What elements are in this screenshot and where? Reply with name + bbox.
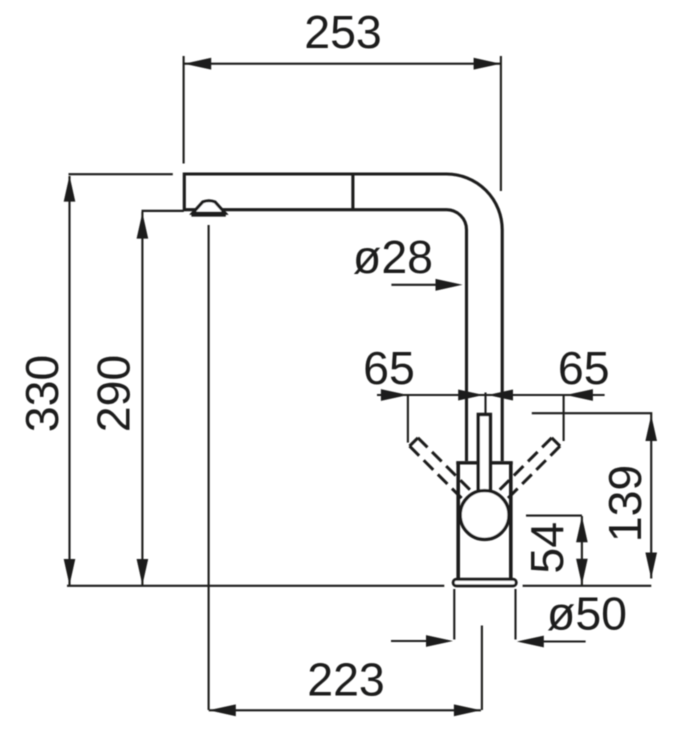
- dim diameter50 left leader: [391, 640, 432, 642]
- dim 65 line: [377, 394, 605, 396]
- dim 330 line: [68, 176, 70, 585]
- dim 290 extension top: [142, 210, 184, 212]
- dim 54 line: [581, 516, 583, 585]
- dim 139 arrow top: [645, 415, 657, 441]
- dim 253 arrow right: [474, 58, 501, 70]
- dim 223 left extension: [208, 225, 210, 710]
- housing top line: [456, 461, 512, 464]
- dim 54 extension top: [526, 515, 582, 517]
- svg-text:139: 139: [599, 465, 651, 543]
- mixer sphere: [460, 491, 509, 540]
- dim 65 right extension: [563, 394, 565, 441]
- dashed lever position left: [410, 438, 472, 500]
- baseline / counter line: [67, 585, 444, 587]
- dim diameter50 right leader: [540, 640, 586, 642]
- svg-text:ø50: ø50: [547, 588, 627, 640]
- base center extension: [481, 626, 483, 711]
- dim 65 left extension: [407, 395, 409, 443]
- dim 290 arrow top: [137, 213, 149, 239]
- svg-text:253: 253: [304, 6, 382, 58]
- dim 223 line: [209, 709, 481, 711]
- aerator dome: [193, 201, 226, 213]
- dim 65 arrow at left ext: [381, 389, 408, 401]
- dim 253 extension left: [183, 56, 185, 164]
- dim 65 arrow at right ext: [566, 389, 593, 401]
- svg-text:223: 223: [307, 654, 385, 706]
- dim diameter50 left extension: [453, 589, 455, 640]
- dim 223 arrow right: [454, 704, 481, 716]
- housing right wall: [509, 462, 513, 579]
- dim 139 line: [650, 414, 652, 579]
- dim 330 arrow top: [64, 176, 76, 202]
- dim 139 extension top: [532, 412, 653, 414]
- spray head divider: [351, 173, 354, 211]
- spout inner outline: [184, 210, 466, 461]
- dim 290 arrow bottom: [137, 559, 149, 585]
- aerator base: [191, 213, 225, 217]
- spout left end cap: [183, 173, 186, 212]
- housing left wall: [456, 462, 460, 579]
- dim 330 arrow bottom: [64, 559, 76, 585]
- dim 65 arrow at pipe right: [488, 390, 513, 401]
- base flange: [453, 579, 516, 586]
- dim 54 arrow top: [576, 516, 588, 542]
- dim diameter28 leader line: [391, 284, 440, 286]
- svg-text:54: 54: [521, 522, 573, 574]
- spout outer outline: [184, 174, 502, 461]
- dim 65 arrow at pipe left: [458, 390, 483, 401]
- svg-text:65: 65: [363, 342, 415, 394]
- dim 54 arrow bottom: [576, 559, 588, 585]
- dim 290 line: [141, 212, 143, 585]
- svg-text:290: 290: [87, 355, 139, 433]
- lever rod: [478, 415, 490, 503]
- dim 253 arrow left: [184, 58, 211, 70]
- dim 223 arrow left: [209, 704, 236, 716]
- dim 253 line: [184, 63, 500, 65]
- dim 139 arrow bottom: [645, 553, 657, 579]
- svg-text:330: 330: [16, 355, 68, 433]
- dim diameter50 left arrow: [426, 635, 453, 647]
- dim 65 center tick: [484, 393, 486, 414]
- dashed lever position right: [498, 438, 560, 500]
- svg-text:65: 65: [558, 342, 610, 394]
- dim 253 extension right: [500, 56, 502, 191]
- dim 330 extension top: [69, 173, 173, 175]
- dim diameter50 right extension: [514, 589, 516, 640]
- dim diameter28 arrow: [436, 279, 463, 291]
- svg-text:ø28: ø28: [353, 231, 433, 283]
- dim diameter50 right arrow: [517, 636, 544, 648]
